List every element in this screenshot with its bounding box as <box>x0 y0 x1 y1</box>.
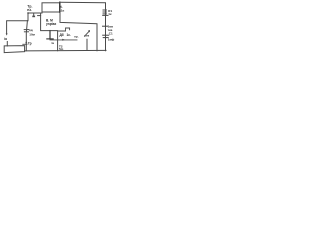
svg-text:іа: іа <box>4 37 7 41</box>
svg-text:1к: 1к <box>108 12 112 16</box>
svg-text:B4.: B4. <box>27 8 32 12</box>
svg-text:cек: cек <box>84 34 89 38</box>
svg-text:np.: np. <box>74 34 78 38</box>
svg-text:10м: 10м <box>29 32 35 36</box>
svg-text:Дб: Дб <box>60 33 64 37</box>
svg-text:ta: ta <box>52 41 55 45</box>
svg-text:C1: C1 <box>109 31 113 35</box>
svg-text:5m: 5m <box>59 47 64 51</box>
svg-text:1c.: 1c. <box>67 33 72 37</box>
svg-text:кд: кд <box>29 28 33 32</box>
svg-text:Δs: Δs <box>61 8 65 12</box>
svg-text:1мф: 1мф <box>108 38 115 42</box>
svg-text:Гр: Гр <box>28 41 32 45</box>
svg-text:ynptax: ynptax <box>46 22 57 26</box>
